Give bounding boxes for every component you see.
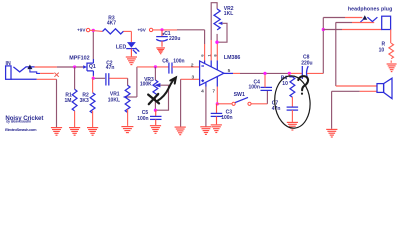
- wire VR1 bottom to ground: [127, 109, 129, 126]
- svg-text:10: 10: [282, 81, 288, 87]
- svg-text:1M: 1M: [64, 98, 71, 104]
- wire pin8: [216, 42, 218, 60]
- capacitor C1: [156, 30, 180, 47]
- ground (R2): [87, 128, 98, 136]
- power +9V terminal (left): [77, 28, 90, 33]
- svg-text:C6: C6: [162, 58, 169, 64]
- wire LED to ground: [130, 49, 132, 57]
- svg-text:LM386: LM386: [224, 55, 241, 61]
- svg-text:10: 10: [379, 47, 385, 53]
- potentiometer VR2: [211, 3, 234, 61]
- svg-text:100K: 100K: [140, 82, 152, 88]
- wire Q1 drain to +9V: [92, 30, 94, 59]
- svg-text:7: 7: [212, 89, 215, 95]
- wire input tip to gate: [35, 66, 84, 68]
- annotation question mark (black): [298, 76, 308, 94]
- ground (pin4): [200, 127, 211, 135]
- annotation arrow (black): [157, 78, 176, 102]
- input jack J1 body: [6, 66, 11, 79]
- wire pin7 down: [216, 87, 218, 104]
- input jack plug arrow: [27, 65, 40, 74]
- svg-text:Q1: Q1: [89, 64, 96, 70]
- svg-text:2: 2: [191, 63, 194, 69]
- svg-text:LED: LED: [116, 44, 127, 50]
- wire pin4 to ground: [205, 87, 207, 127]
- wire to jack sleeve: [336, 22, 374, 24]
- svg-text:by Beavisaudio: by Beavisaudio: [6, 120, 31, 124]
- headphone jack plug arrow: [360, 15, 367, 22]
- wire +9V to pin6: [153, 30, 205, 61]
- svg-text:1KL: 1KL: [224, 11, 233, 17]
- ground (VR1): [121, 127, 133, 133]
- wire VR1 wiper riser: [136, 67, 138, 97]
- switch SW1: [217, 92, 267, 105]
- wire wiper node to C6: [137, 66, 169, 68]
- capacitor C8: [301, 55, 323, 79]
- node junction dot R1/gate: [73, 65, 76, 68]
- resistor R2: [80, 78, 95, 127]
- svg-text:10KL: 10KL: [108, 97, 120, 103]
- ground (speaker): [326, 129, 337, 137]
- potentiometer VR1: [108, 85, 137, 112]
- resistor R3: [93, 15, 131, 34]
- node +9V junction dot: [92, 29, 95, 32]
- svg-text:100n: 100n: [221, 115, 232, 121]
- capacitor C6: [162, 58, 184, 73]
- svg-text:3K3: 3K3: [80, 98, 89, 104]
- input jack tip contact: [13, 67, 34, 72]
- node junction dot pin7/C3/SW1: [216, 102, 219, 105]
- wire R3 to LED: [130, 31, 132, 42]
- ground (R1): [69, 128, 80, 136]
- speaker SPK1: [377, 78, 392, 98]
- svg-text:100n: 100n: [248, 84, 259, 90]
- capacitor C5: [137, 110, 161, 125]
- wire input sleeve to ground: [11, 79, 57, 127]
- wire +9V to R3: [90, 29, 94, 31]
- svg-text:4: 4: [201, 89, 204, 95]
- wire pin3 to ground: [181, 79, 200, 126]
- ground (pin3): [175, 127, 186, 135]
- wire input ring (open): [40, 72, 54, 74]
- power +9V terminal (right): [137, 28, 152, 33]
- capacitor C3: [211, 104, 233, 124]
- svg-text:headphones plug: headphones plug: [348, 6, 392, 12]
- wire C2 to VR1: [109, 78, 127, 85]
- ground (input jack): [51, 128, 62, 136]
- potentiometer VR3: [140, 67, 169, 110]
- node junction dot source: [92, 77, 95, 80]
- ground (C1): [156, 48, 165, 54]
- wire output riser to headphone jack: [323, 18, 362, 74]
- svg-text:3: 3: [192, 75, 195, 81]
- ground (C3): [211, 125, 222, 133]
- wire Q1 source node: [93, 77, 105, 79]
- svg-text:4K7: 4K7: [107, 20, 116, 26]
- svg-text:+9V: +9V: [137, 28, 146, 33]
- ground (C5): [150, 126, 161, 134]
- node junction dot headphone: [322, 28, 325, 31]
- transistor Q1 MPF102: [69, 56, 96, 76]
- ground (LED): [126, 57, 137, 65]
- svg-text:100n: 100n: [137, 116, 148, 122]
- wire jack sleeve to speaker: [336, 22, 377, 86]
- title Noisy Cricket: [5, 115, 43, 132]
- svg-text:47n: 47n: [106, 65, 115, 71]
- wire pin5 output: [224, 72, 302, 74]
- op-amp U1 LM386: [200, 55, 241, 85]
- annotation ellipse (black): [273, 74, 313, 129]
- headphone jack tip contact: [367, 17, 377, 21]
- annotation X mark (black): [148, 94, 159, 104]
- ground (R headphone): [387, 64, 397, 72]
- op-amp bottom pin stubs: [206, 77, 217, 87]
- LED D1: [116, 42, 140, 54]
- svg-text:MPF102: MPF102: [69, 56, 89, 62]
- capacitor C7: [272, 100, 298, 122]
- svg-text:220u: 220u: [301, 60, 312, 66]
- ground (C7): [287, 122, 298, 130]
- node junction dot C4: [263, 72, 266, 75]
- svg-text:+9V: +9V: [77, 28, 86, 33]
- node open X mark: [54, 73, 58, 77]
- svg-text:ElectroSmash.com: ElectroSmash.com: [5, 127, 37, 132]
- svg-text:100n: 100n: [173, 58, 184, 64]
- resistor R4: [281, 73, 295, 107]
- node junction dot VR3 tap: [154, 65, 157, 68]
- wire to plug body: [323, 29, 381, 31]
- op-amp top pin stubs: [205, 60, 218, 70]
- capacitor C2: [106, 60, 115, 85]
- node junction dot pin8/VR2: [215, 41, 218, 44]
- node junction dot C1: [160, 28, 163, 31]
- node junction dot R4: [288, 72, 291, 75]
- wire speaker to ground: [332, 91, 377, 129]
- headphone plug body: [382, 16, 391, 29]
- wire C6 to pin2: [172, 66, 200, 68]
- svg-text:SW1: SW1: [234, 92, 245, 98]
- capacitor C4: [248, 73, 272, 103]
- resistor R1: [64, 67, 77, 127]
- svg-text:220u: 220u: [169, 36, 180, 42]
- node junction dot VR3/C5: [154, 109, 157, 112]
- resistor R (headphone): [379, 30, 394, 63]
